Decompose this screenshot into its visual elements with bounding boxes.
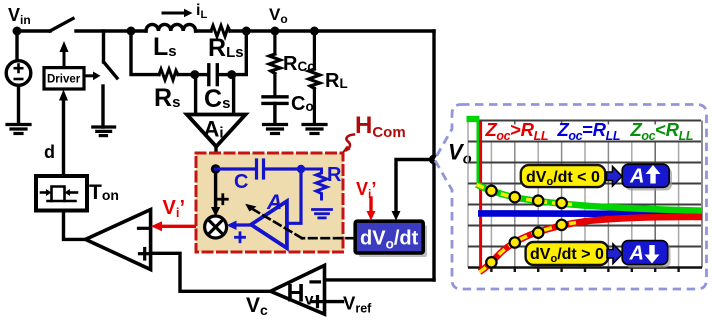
callout dVo/dt < 0 xyxy=(521,165,606,188)
arrow iL xyxy=(163,2,207,21)
svg-text:RL: RL xyxy=(325,70,348,92)
op-amp Ai xyxy=(187,115,246,147)
dashed gain-control wire xyxy=(250,208,354,239)
sample markers (red curve) xyxy=(486,220,567,268)
grid horizontal lines xyxy=(468,121,701,247)
svg-text:dVo/dt > 0: dVo/dt > 0 xyxy=(530,246,604,265)
wire to Hv minus xyxy=(325,278,435,281)
green step drop xyxy=(476,121,479,184)
svg-text:Rs: Rs xyxy=(154,84,180,112)
yellow dash overlay (red curve) xyxy=(480,223,577,272)
one-shot Ton xyxy=(36,176,119,211)
ground (sync switch) xyxy=(93,127,115,136)
arrow to A down xyxy=(607,244,623,264)
node Vo sense xyxy=(429,155,439,165)
curve Zoc>RLL (red) xyxy=(480,217,703,272)
yellow dash overlay (green curve) xyxy=(477,185,573,205)
svg-text:Driver: Driver xyxy=(47,74,81,86)
comparator U-pwm xyxy=(86,210,151,270)
wire Vo rail down right side xyxy=(432,31,435,280)
resistor R (blue) xyxy=(301,169,327,199)
svg-text:R: R xyxy=(327,164,342,186)
svg-text:Cs: Cs xyxy=(204,85,230,113)
curve Zoc<RLL (green) xyxy=(477,185,703,211)
svg-text:A: A xyxy=(629,242,644,264)
wire A out to multiplier xyxy=(227,221,252,231)
wire Vi' (red, mult to comparator minus) xyxy=(151,197,205,231)
svg-text:dVo/dt < 0: dVo/dt < 0 xyxy=(526,169,600,188)
wire node to multiplier xyxy=(211,169,220,217)
resistor RLs xyxy=(211,26,230,37)
node RL xyxy=(310,27,319,36)
svg-text:Vref: Vref xyxy=(343,293,372,316)
ground (source) xyxy=(7,125,30,134)
svg-text:A: A xyxy=(266,191,282,214)
ground (R, blue) xyxy=(313,210,332,218)
curve Zoc=RLL (blue) xyxy=(478,210,702,217)
svg-text:Ls: Ls xyxy=(153,33,177,61)
wire node C up to rail xyxy=(232,31,247,75)
callout dVo/dt > 0 xyxy=(526,242,609,265)
svg-text:Ton: Ton xyxy=(89,181,119,204)
capacitor C (blue) xyxy=(216,160,301,178)
capacitor Co xyxy=(263,97,287,124)
svg-text:Vc: Vc xyxy=(246,294,268,318)
wire driver right arrow xyxy=(84,72,101,81)
node Vin xyxy=(8,5,31,36)
amplifier Ai input wires xyxy=(194,75,197,115)
pre-step level (green bar) xyxy=(467,116,480,122)
x-axis with ticks xyxy=(468,268,702,273)
resistor Rs xyxy=(159,69,178,80)
node D (C-R junction, blue) xyxy=(297,165,305,173)
svg-text:C: C xyxy=(234,171,248,193)
driver U-drv xyxy=(44,68,84,89)
wire RLs to Vo xyxy=(230,29,434,32)
arrow to A up xyxy=(607,167,623,187)
red step drop xyxy=(479,122,482,268)
plus sign (mult top input) xyxy=(218,195,227,204)
inset panel border xyxy=(435,105,707,290)
wire driver gate arrow up xyxy=(60,41,69,68)
wire top rail to switch xyxy=(17,29,50,32)
compensator box HCom xyxy=(196,153,343,252)
ground (Co) xyxy=(264,125,287,134)
wire Rs to node B xyxy=(178,73,195,76)
node H (Ai out) xyxy=(211,164,221,174)
svg-text:Co: Co xyxy=(291,93,314,115)
wire d (Ton to driver) xyxy=(59,90,68,177)
wire node to dVo/dt xyxy=(392,160,435,221)
svg-text:Vin: Vin xyxy=(8,5,31,27)
svg-text:A: A xyxy=(629,166,644,188)
box A up xyxy=(622,164,672,190)
voltage source Vin xyxy=(6,31,31,124)
inductor Ls xyxy=(146,24,196,31)
wire Ton to comparator xyxy=(64,211,85,240)
multiplier X1 xyxy=(205,216,227,238)
wire Ls to RLs xyxy=(196,29,211,32)
node A (switch / Ls junction) xyxy=(127,27,136,36)
wire Ai out xyxy=(214,147,217,170)
wire Vc xyxy=(151,253,271,291)
op-amp Hv xyxy=(271,265,325,314)
box A down xyxy=(622,241,670,268)
wire node to Ls xyxy=(131,29,146,32)
svg-text:Vo: Vo xyxy=(269,5,288,26)
resistor RCo branch xyxy=(269,31,280,95)
wire feedback (blue node to amp A) xyxy=(288,169,301,223)
wire rail after switch xyxy=(76,29,131,32)
svg-text:HCom: HCom xyxy=(355,112,406,141)
wire Vref xyxy=(325,300,343,303)
block dVo/dt xyxy=(355,221,427,257)
svg-text:RLs: RLs xyxy=(208,34,244,62)
switch S1 (main) xyxy=(50,19,73,32)
capacitor Cs xyxy=(195,65,232,85)
grid vertical lines xyxy=(468,121,702,268)
svg-text:iL: iL xyxy=(196,2,207,21)
svg-text:d: d xyxy=(44,142,55,162)
node B xyxy=(190,70,199,79)
plus sign (mult right input, blue) xyxy=(236,233,245,242)
svg-text:Vi’: Vi’ xyxy=(356,179,376,201)
sense branch: wire down from node A xyxy=(131,31,159,75)
resistor RL xyxy=(309,31,320,124)
arrow Vi' into block xyxy=(367,198,376,221)
svg-text:Vi’: Vi’ xyxy=(163,197,186,220)
sample markers (green curve) xyxy=(486,186,567,209)
node C xyxy=(227,70,236,79)
ground (RL) xyxy=(303,125,326,134)
switch S2 (sync) xyxy=(103,31,117,127)
op-amp A (blue, variable gain) xyxy=(251,201,287,248)
squiggle arrow to box xyxy=(346,135,354,151)
